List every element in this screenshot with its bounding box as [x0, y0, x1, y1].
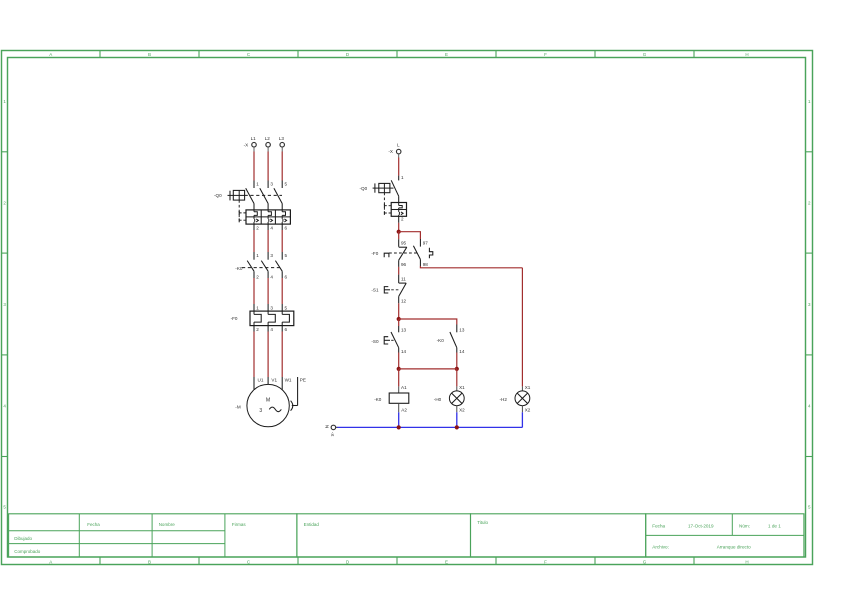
svg-text:2: 2 — [808, 200, 811, 205]
svg-text:3: 3 — [259, 408, 262, 414]
svg-text:3: 3 — [3, 302, 6, 307]
svg-text:5: 5 — [285, 253, 288, 258]
svg-text:Comprobado: Comprobado — [14, 549, 41, 554]
svg-text:6: 6 — [285, 275, 288, 280]
svg-text:5: 5 — [3, 505, 6, 510]
svg-text:-H0: -H0 — [434, 397, 442, 402]
svg-text:5: 5 — [808, 505, 811, 510]
svg-text:14: 14 — [401, 349, 407, 354]
svg-text:G: G — [643, 52, 647, 57]
svg-text:-Q0: -Q0 — [360, 186, 368, 191]
svg-text:L3: L3 — [279, 136, 285, 141]
svg-text:4: 4 — [808, 404, 811, 409]
svg-text:2: 2 — [256, 275, 259, 280]
svg-text:Fecha: Fecha — [652, 524, 665, 529]
svg-text:M: M — [266, 398, 270, 404]
svg-text:2: 2 — [3, 200, 6, 205]
svg-text:-K0: -K0 — [235, 266, 243, 271]
svg-text:97: 97 — [423, 240, 429, 245]
svg-text:X1: X1 — [525, 385, 531, 390]
svg-text:-F0: -F0 — [371, 251, 378, 256]
svg-text:G: G — [643, 559, 647, 564]
svg-text:X2: X2 — [459, 408, 465, 413]
svg-text:5: 5 — [285, 305, 288, 310]
svg-text:95: 95 — [401, 240, 407, 245]
svg-text:H: H — [745, 559, 748, 564]
svg-text:2: 2 — [256, 225, 259, 230]
svg-text:A: A — [49, 52, 52, 57]
svg-text:3: 3 — [808, 302, 811, 307]
svg-text:17-Oct-2019: 17-Oct-2019 — [688, 524, 714, 529]
svg-text:U1: U1 — [258, 378, 264, 383]
svg-text:1: 1 — [808, 99, 811, 104]
svg-text:V1: V1 — [271, 378, 277, 383]
svg-text:A2: A2 — [401, 408, 407, 413]
svg-text:12: 12 — [401, 299, 407, 304]
svg-text:-K0: -K0 — [437, 338, 445, 343]
svg-text:6: 6 — [285, 225, 288, 230]
svg-text:-H2: -H2 — [500, 397, 508, 402]
svg-text:W1: W1 — [285, 378, 292, 383]
svg-text:E: E — [445, 52, 448, 57]
svg-text:H: H — [745, 52, 748, 57]
svg-text:L: L — [397, 143, 400, 148]
svg-text:-F0: -F0 — [231, 316, 238, 321]
svg-text:Dibujado: Dibujado — [14, 536, 32, 541]
svg-text:-S1: -S1 — [371, 287, 379, 292]
svg-text:Titulo: Titulo — [477, 520, 488, 525]
svg-text:1: 1 — [3, 99, 6, 104]
svg-text:Núm:: Núm: — [739, 524, 750, 529]
svg-text:14: 14 — [459, 349, 465, 354]
svg-text:4: 4 — [270, 225, 273, 230]
svg-text:-M: -M — [235, 404, 241, 409]
svg-text:B: B — [148, 52, 151, 57]
svg-text:PE: PE — [300, 378, 306, 383]
svg-text:96: 96 — [401, 262, 407, 267]
svg-text:2: 2 — [401, 217, 404, 222]
svg-text:98: 98 — [423, 262, 429, 267]
svg-text:-X: -X — [330, 432, 335, 437]
svg-text:C: C — [247, 52, 251, 57]
svg-text:-X: -X — [244, 142, 249, 147]
svg-text:Entidad: Entidad — [304, 522, 320, 527]
svg-text:N: N — [324, 425, 329, 428]
svg-text:F: F — [544, 52, 547, 57]
svg-text:Archivo:: Archivo: — [652, 544, 669, 549]
svg-text:4: 4 — [270, 327, 273, 332]
svg-text:3: 3 — [270, 253, 273, 258]
svg-text:B: B — [148, 559, 151, 564]
svg-text:-S0: -S0 — [371, 339, 379, 344]
svg-text:3: 3 — [270, 181, 273, 186]
svg-text:4: 4 — [3, 404, 6, 409]
svg-text:1: 1 — [256, 181, 259, 186]
svg-text:5: 5 — [285, 181, 288, 186]
svg-text:Nombre: Nombre — [159, 522, 176, 527]
svg-text:X2: X2 — [525, 408, 531, 413]
svg-text:-K0: -K0 — [374, 397, 382, 402]
svg-text:6: 6 — [285, 327, 288, 332]
svg-text:A: A — [49, 559, 52, 564]
svg-text:13: 13 — [459, 328, 465, 333]
svg-text:1: 1 — [256, 253, 259, 258]
svg-text:Firmas: Firmas — [232, 522, 246, 527]
svg-text:E: E — [445, 559, 448, 564]
svg-text:X1: X1 — [459, 385, 465, 390]
svg-text:4: 4 — [270, 275, 273, 280]
svg-text:3: 3 — [270, 305, 273, 310]
svg-text:D: D — [346, 559, 350, 564]
svg-text:C: C — [247, 559, 251, 564]
svg-text:Arranque directo: Arranque directo — [717, 544, 751, 549]
svg-text:1: 1 — [256, 305, 259, 310]
svg-text:1 de 1: 1 de 1 — [768, 524, 781, 529]
svg-text:Fecha: Fecha — [87, 522, 100, 527]
svg-text:2: 2 — [256, 327, 259, 332]
svg-text:1: 1 — [401, 175, 404, 180]
svg-text:11: 11 — [401, 277, 406, 282]
svg-text:-X: -X — [388, 149, 393, 154]
svg-text:D: D — [346, 52, 350, 57]
svg-text:F: F — [544, 559, 547, 564]
svg-text:L1: L1 — [251, 136, 257, 141]
svg-text:L2: L2 — [265, 136, 271, 141]
svg-text:A1: A1 — [401, 385, 407, 390]
svg-text:-Q0: -Q0 — [214, 193, 222, 198]
svg-text:13: 13 — [401, 328, 407, 333]
